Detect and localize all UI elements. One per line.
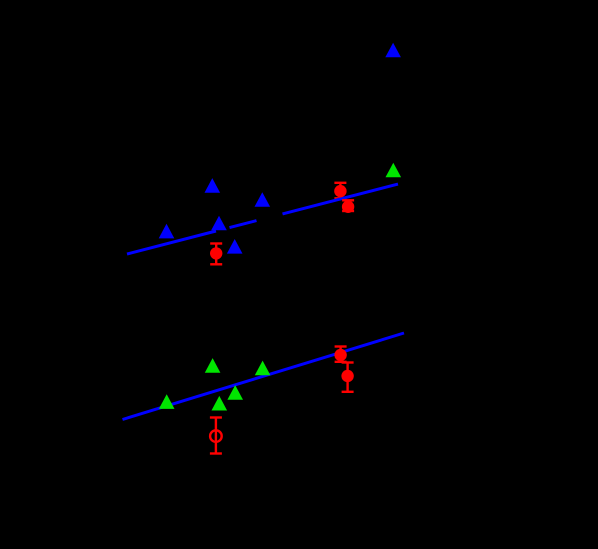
top fit line segment 3 (283, 184, 399, 214)
bottom panel: red filled circle (348,376) (341, 370, 353, 382)
top panel: red filled circle (348,207) (342, 201, 354, 213)
bottom panel: green triangle (234,394) (227, 385, 243, 400)
top panel: red filled circle (216,253) (210, 247, 222, 259)
top panel: error bar of red point (340,191), drawn under fit line (334, 183, 346, 199)
bottom panel: error bar of red open circle (216,436) (210, 418, 222, 454)
top panel: blue triangle (212,185) (205, 178, 221, 193)
bottom panel: green triangle (166,402) (159, 394, 175, 409)
top panel: blue triangle (219,224) (211, 216, 227, 231)
bottom fit line (123, 333, 405, 420)
top fit line segment 1 (127, 231, 216, 254)
bottom panel: red filled circle (341,355) (334, 349, 346, 361)
bottom panel: error bar of red point (348,376) (342, 363, 354, 392)
top panel: blue triangle (166,231) (159, 224, 175, 239)
top panel: green triangle (393,170) (386, 163, 402, 178)
bottom panel: green triangle (219,405) (212, 396, 228, 411)
bottom panel: error bar of red point (341,355) (335, 347, 347, 362)
top panel: error bar of red point (348,207) (342, 200, 354, 211)
top fit line segment 2 (230, 221, 257, 228)
top right: blue triangle (393,50) (385, 43, 401, 58)
bottom panel: green triangle (213,366) (205, 358, 221, 373)
top panel: error bar of red point (216,253) (210, 244, 222, 265)
bottom panel: green triangle (263,369) (255, 361, 271, 376)
top panel: blue triangle (262,200) (255, 192, 271, 207)
top panel: blue triangle (234,246) (227, 239, 243, 254)
top panel: red filled circle (340,191) (334, 185, 346, 197)
bottom panel: red open circle (216,436) (210, 430, 222, 442)
